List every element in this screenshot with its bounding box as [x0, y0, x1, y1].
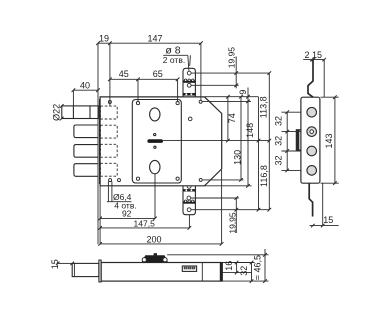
keyhole dot below — [154, 146, 156, 148]
dim ticks top — [60, 41, 203, 120]
svg-text:16: 16 — [224, 261, 234, 271]
dim line A 116,8 — [258, 97, 260, 210]
case top extension — [205, 96, 258, 98]
bottom tab crimp band 1 — [183, 189, 195, 191]
dim 45/65 line — [110, 78, 178, 80]
cylinder hole bottom — [150, 160, 160, 173]
svg-text:19: 19 — [99, 33, 109, 43]
dim 200 — [100, 243, 222, 245]
dim 19,95 top — [235, 57, 237, 89]
bottom view bar — [101, 263, 222, 282]
case hole bottom-left 2 — [118, 179, 121, 182]
svg-text:32: 32 — [239, 266, 249, 276]
svg-text:2 отв.: 2 отв. — [163, 55, 185, 65]
dim 147,5 — [100, 227, 189, 229]
side view bolt hole 1 — [307, 107, 317, 117]
dim ticks bottom — [98, 217, 223, 246]
dim 32 bottom — [251, 263, 253, 282]
case bottom extension — [205, 185, 252, 187]
case hole mid-right — [188, 117, 192, 121]
o8 leader — [163, 54, 187, 56]
case screw hole top-left — [108, 101, 111, 104]
side view top bent tab — [308, 60, 313, 97]
dim 19,95 bottom — [235, 198, 237, 233]
bottom view bump notch — [154, 253, 157, 255]
hidden bolt channels (dashed) — [100, 106, 117, 176]
svg-text:15: 15 — [50, 259, 60, 269]
svg-text:148: 148 — [245, 123, 255, 138]
svg-text:Ø22: Ø22 — [51, 104, 61, 121]
keyhole slot — [147, 139, 163, 143]
dim 16 — [236, 263, 238, 273]
svg-text:9: 9 — [238, 90, 248, 95]
svg-text:19,95: 19,95 — [226, 47, 236, 69]
bottom view bolt — [72, 263, 99, 276]
inner cover plate — [132, 100, 181, 184]
top tab hole 1 — [187, 71, 191, 75]
side view dim 2/15 line — [303, 59, 324, 61]
bottom view bump slab — [142, 255, 168, 262]
side view bottom 15 dim — [310, 225, 339, 227]
top mounting tab — [183, 68, 195, 97]
bottom mounting tab — [183, 186, 195, 215]
bottom view internal vertical — [201, 263, 203, 282]
svg-text:65: 65 — [153, 69, 163, 79]
bottom tab hole 1 — [187, 196, 191, 200]
svg-text:116,8: 116,8 — [259, 165, 269, 187]
bottom tab crimp band 2 — [183, 201, 195, 203]
svg-text:≈ 46,5: ≈ 46,5 — [253, 255, 263, 280]
svg-text:74: 74 — [227, 113, 237, 123]
case screw hole bottom-right — [199, 178, 202, 181]
top tab hole leaders — [191, 72, 269, 74]
side view 32 leaders — [282, 111, 301, 113]
bolt 4 — [74, 164, 99, 177]
cylinder hole top — [150, 108, 160, 121]
side view right extension — [323, 60, 325, 98]
svg-text:32: 32 — [273, 155, 283, 165]
keyhole leader — [163, 140, 269, 142]
svg-text:40: 40 — [80, 80, 90, 90]
dim 130 — [240, 97, 242, 180]
dim 19/147 line — [98, 42, 201, 44]
dim 46,5 — [264, 249, 266, 281]
dim 148 and 9 — [247, 88, 249, 186]
case right edge extension down — [221, 170, 223, 244]
svg-text:143: 143 — [324, 133, 334, 148]
side view bolt hole 3 — [307, 146, 317, 156]
screw line extension top — [202, 100, 251, 102]
side view faceplate box — [301, 97, 320, 183]
svg-text:2: 2 — [304, 50, 309, 60]
side view cylinder bump — [296, 130, 301, 150]
bolt 3 — [74, 145, 99, 158]
side view 143 extensions — [321, 96, 339, 98]
svg-text:32: 32 — [273, 116, 283, 126]
svg-text:147: 147 — [147, 33, 162, 43]
svg-text:147,5: 147,5 — [134, 218, 156, 228]
svg-text:130: 130 — [232, 150, 242, 165]
faceplate edge lines (main view) — [97, 43, 99, 244]
dim line B 113,8 — [268, 73, 270, 210]
bottom view faceplate — [99, 260, 101, 282]
side view bolt hole 4 — [307, 166, 317, 176]
svg-text:15: 15 — [312, 50, 322, 60]
svg-text:113,8: 113,8 — [259, 96, 269, 118]
side view 32 dim line — [286, 112, 288, 170]
dim 74 — [227, 97, 229, 141]
bottom view extensions right — [222, 262, 254, 264]
case screw hole top-right — [199, 100, 202, 103]
dim 40 line — [73, 89, 98, 91]
svg-text:200: 200 — [146, 234, 161, 244]
bottom tab hole 2 — [187, 208, 191, 212]
top tab crimp band 2 — [183, 93, 195, 96]
svg-text:19,95: 19,95 — [227, 212, 237, 234]
bottom view internal line — [222, 272, 251, 274]
bolt 2 — [74, 125, 99, 138]
bottom tab notch — [187, 186, 191, 188]
cover plate screw holes — [136, 102, 139, 105]
o6,4 leader — [107, 181, 109, 201]
bolt 1 — [62, 106, 99, 119]
bottom view end cap — [220, 263, 223, 282]
side view cylinder hole — [307, 127, 317, 137]
keyhole dot above — [154, 134, 156, 136]
bottom view dim 15 — [58, 262, 72, 264]
case screw hole bottom-left — [109, 179, 112, 182]
top tab crimp band 1 — [183, 80, 195, 83]
svg-text:45: 45 — [119, 69, 129, 79]
dimension texts — [50, 33, 334, 280]
svg-text:32: 32 — [273, 136, 283, 146]
svg-text:92: 92 — [122, 209, 132, 219]
bottom view bump wheels — [142, 258, 146, 262]
screw line extension bottom — [203, 179, 244, 181]
side view 143 dim line — [334, 97, 336, 183]
bottom view slot — [182, 266, 196, 271]
side view bottom bent tab — [309, 183, 312, 216]
svg-text:15: 15 — [323, 215, 333, 225]
side view bottom 15 dim extension — [322, 183, 324, 225]
top tab hole 2 — [187, 83, 191, 87]
dim 92 — [100, 217, 155, 219]
bottom tab hole leaders — [191, 197, 239, 199]
main view case outline — [100, 97, 222, 186]
